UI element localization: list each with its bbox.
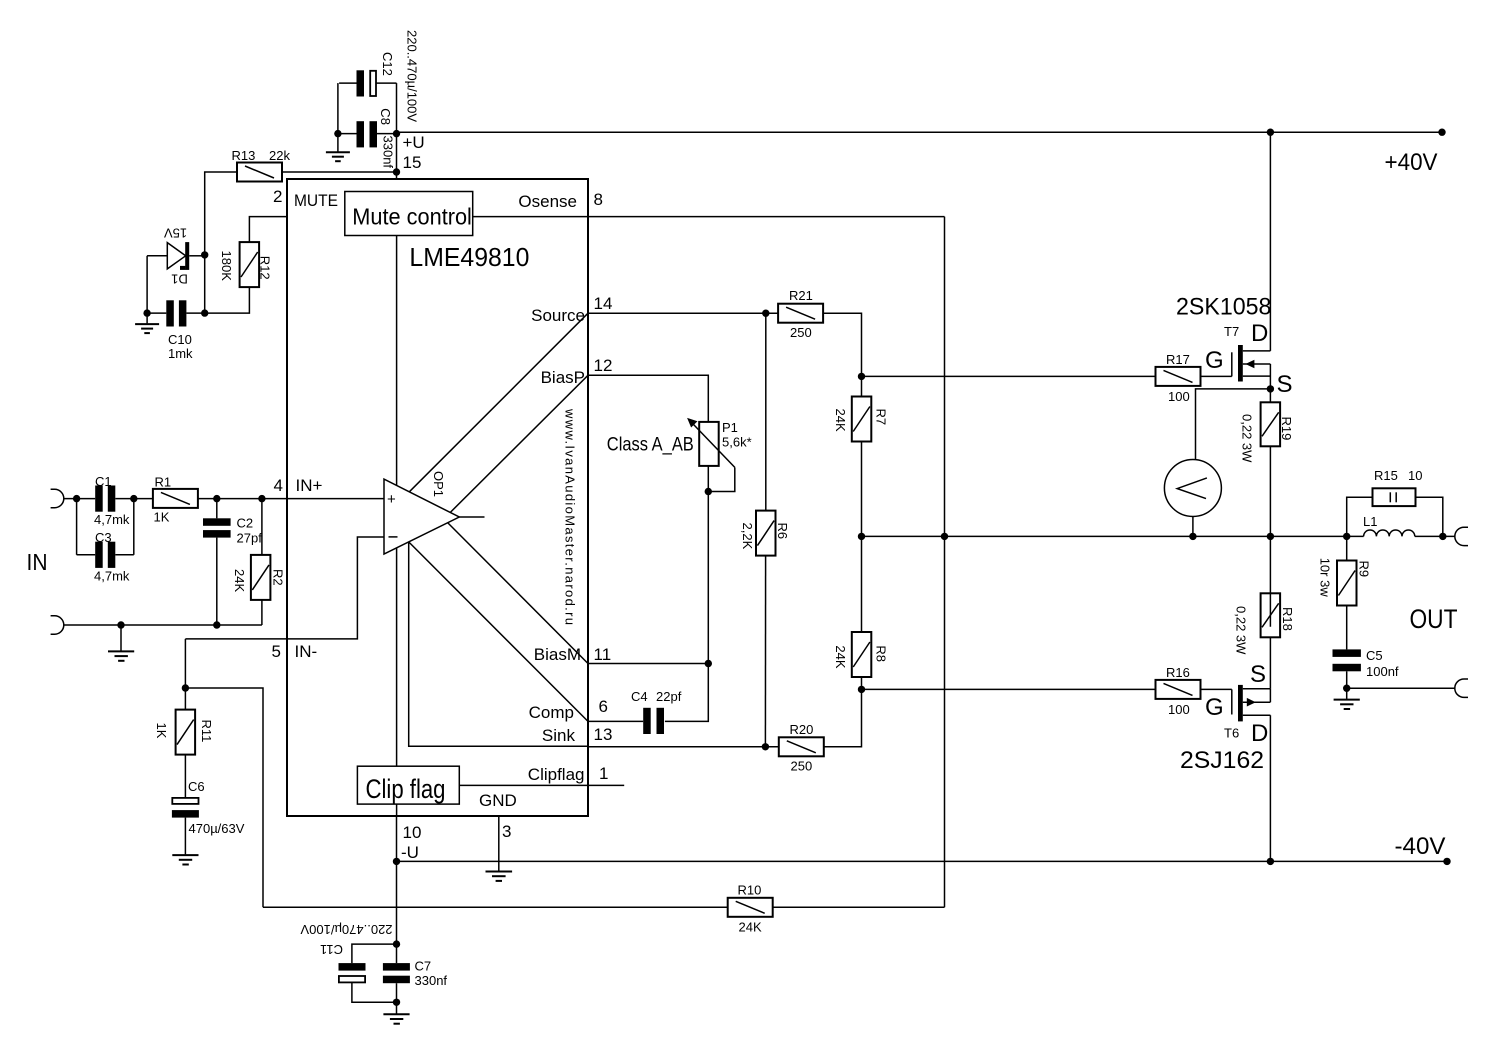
node C5/ground/OUT return junction: [1343, 685, 1350, 692]
wire input top to C1: [64, 498, 95, 500]
svg-text:6: 6: [599, 697, 608, 716]
svg-text:14: 14: [594, 294, 613, 313]
node Osense/output junction: [941, 533, 948, 540]
svg-text:100nf: 100nf: [1366, 664, 1399, 679]
wire BiasP pin12 to P1 top: [588, 375, 708, 422]
transistor T6 2SJ162: [1180, 661, 1270, 861]
node -40V at T6 drain: [1267, 858, 1274, 865]
node Source/R6 junction: [762, 310, 769, 317]
svg-text:C6: C6: [188, 779, 205, 794]
wire R16 right to T6 gate: [1201, 688, 1232, 690]
svg-text:T7: T7: [1224, 324, 1239, 339]
svg-text:C10: C10: [168, 332, 192, 347]
wire R7top junction to R17: [862, 375, 1156, 377]
wire R12 top to pin2 MUTE: [249, 217, 287, 243]
capacitor C10 1mk: [166, 300, 193, 361]
wire C5 bottom to ground node: [1346, 671, 1348, 688]
svg-text:C11: C11: [320, 942, 343, 957]
node ground tap: [117, 621, 124, 628]
wire IN- outside to feedback node: [184, 639, 186, 710]
node R7 top junction: [858, 373, 865, 380]
wire lower input line: [64, 624, 262, 626]
capacitor C1 4,7mk: [94, 474, 130, 527]
resistor R17 100: [1156, 352, 1201, 404]
wire Clipflag pin1 out: [459, 784, 624, 786]
svg-text:R11: R11: [199, 720, 214, 743]
svg-text:24K: 24K: [739, 920, 762, 935]
wire OP1 output stub: [459, 516, 484, 518]
wire diagonal to BiasM pin11: [448, 523, 588, 664]
resistor R18 0,22 3W: [1234, 593, 1296, 655]
wire R1 right to IC pin4: [198, 498, 384, 500]
svg-text:24K: 24K: [232, 569, 247, 592]
svg-text:C12: C12: [380, 52, 395, 76]
svg-text:Osense: Osense: [518, 192, 577, 211]
wire C10 left: [147, 312, 166, 314]
wire C10 node to R12 bottom: [205, 287, 250, 313]
svg-text:1mk: 1mk: [168, 346, 193, 361]
svg-text:T6: T6: [1224, 726, 1239, 741]
resistor R1 1K: [153, 475, 198, 525]
-40V supply rail: [397, 860, 1448, 862]
wire R18 bottom to T6 source: [1269, 637, 1271, 689]
node C10 right junction: [201, 309, 208, 316]
node T7 source junction: [1267, 385, 1274, 392]
node -U rail junction: [393, 858, 400, 865]
resistor R12 180K: [219, 242, 273, 287]
wire diagonal to BiasP pin12: [450, 375, 588, 512]
svg-text:R6: R6: [775, 523, 790, 540]
resistor R11 1K: [154, 710, 214, 755]
node R19/R18 output junction: [1267, 533, 1274, 540]
svg-text:Class A_AB: Class A_AB: [607, 435, 694, 456]
svg-text:MUTE: MUTE: [294, 191, 338, 210]
svg-text:5: 5: [272, 642, 281, 661]
svg-text:R8: R8: [873, 645, 888, 662]
resistor R15 10: [1373, 468, 1423, 506]
wire Sink pin13 to R20: [588, 746, 779, 748]
svg-text:10: 10: [403, 823, 422, 842]
node C7/C11 top junction: [393, 940, 400, 947]
ground (output): [1334, 688, 1360, 709]
wire R11 bottom to C6: [184, 755, 186, 798]
wire mute vertical (pin10 path): [396, 236, 398, 817]
wire P1 bottom down to C4 branch: [665, 466, 708, 722]
svg-text:0,22 3W: 0,22 3W: [1240, 414, 1255, 463]
svg-text:+U: +U: [403, 133, 425, 152]
svg-text:R10: R10: [738, 883, 762, 898]
svg-text:GND: GND: [479, 791, 517, 810]
svg-text:100: 100: [1168, 702, 1190, 717]
wire C11 branch top: [352, 944, 397, 963]
wire L1 right to OUT connector: [1415, 535, 1455, 537]
svg-text:-40V: -40V: [1395, 833, 1446, 860]
wire BiasM pin11: [588, 663, 708, 665]
transistor T7 2SK1058: [1176, 132, 1293, 402]
node meter/output junction: [1189, 533, 1196, 540]
svg-text:250: 250: [790, 325, 812, 340]
svg-text:IN+: IN+: [296, 476, 323, 495]
wire C8 right to +U junction: [377, 133, 397, 135]
wire D1 anode down to C10: [146, 256, 148, 313]
ground (C10): [135, 313, 159, 333]
svg-text:R9: R9: [1357, 561, 1372, 578]
svg-text:P1: P1: [722, 420, 738, 435]
node pin15/R13 junction: [393, 168, 400, 175]
svg-text:27pf: 27pf: [237, 531, 263, 546]
resistor R2 24K: [232, 555, 286, 600]
node -40V rail end: [1443, 858, 1450, 865]
svg-text:Sink: Sink: [542, 726, 576, 745]
svg-text:2,2K: 2,2K: [740, 523, 755, 550]
svg-text:1K: 1K: [154, 510, 170, 525]
node R2 top: [258, 495, 265, 502]
svg-text:11: 11: [594, 645, 612, 664]
svg-text:S: S: [1250, 661, 1266, 688]
inductor L1: [1363, 514, 1415, 536]
svg-text:4,7mk: 4,7mk: [94, 512, 130, 527]
svg-text:OP1: OP1: [431, 471, 446, 497]
wire R9 top stem: [1346, 536, 1348, 560]
svg-text:R2: R2: [271, 569, 286, 586]
svg-text:D: D: [1251, 320, 1268, 347]
resistor R8 24K: [833, 632, 888, 677]
wire C11 branch bottom: [352, 983, 397, 1003]
resistor R21 250: [778, 288, 823, 340]
resistor R10 24K: [728, 883, 773, 935]
wire C1 right to R1: [115, 498, 153, 500]
svg-text:15: 15: [403, 153, 422, 172]
node C8-left junction: [334, 130, 341, 137]
wire R13 left down to D1 node: [205, 172, 237, 313]
svg-text:R7: R7: [873, 409, 888, 426]
wire C2 top stem: [216, 499, 218, 519]
wire feedback branch right: [185, 688, 263, 907]
svg-text:220..470µ/100V: 220..470µ/100V: [300, 922, 392, 937]
svg-text:24K: 24K: [833, 409, 848, 432]
svg-text:Clip flag: Clip flag: [366, 774, 446, 804]
wire T7 source to meter branch: [1196, 389, 1271, 460]
+40V supply rail: [397, 131, 1443, 133]
wire D1 anode left: [147, 255, 167, 257]
svg-text:0,22 3W: 0,22 3W: [1234, 606, 1249, 655]
svg-text:330nf: 330nf: [415, 973, 448, 988]
capacitor C4 22pf: [631, 689, 682, 734]
svg-text:G: G: [1205, 694, 1224, 721]
svg-text:180K: 180K: [219, 251, 234, 282]
wire R2 bottom stem to lower input wire: [261, 600, 263, 625]
wire R2 top stem: [261, 499, 263, 555]
svg-text:C5: C5: [1366, 648, 1383, 663]
wire pin3 ground stem: [498, 816, 500, 871]
wire diagonal to Source pin14: [409, 313, 588, 492]
wire C3 parallel branch right: [115, 554, 134, 556]
wire C2 bottom stem: [216, 538, 218, 625]
wire C6 bottom to ground: [184, 818, 186, 855]
op-amp OP1: [384, 471, 459, 554]
OUT connector top: [1455, 527, 1468, 545]
resistor R7 24K: [833, 397, 888, 442]
node C10 left junction: [143, 309, 150, 316]
svg-text:C2: C2: [237, 516, 254, 531]
wire Osense line pin8: [473, 216, 945, 218]
svg-text:L1: L1: [1363, 514, 1377, 529]
wire R8 bottom junction to R16: [861, 677, 863, 689]
svg-text:10: 10: [1408, 468, 1422, 483]
svg-text:D: D: [1251, 720, 1268, 747]
wire R6 column: [765, 313, 767, 510]
svg-text:+: +: [387, 491, 396, 508]
svg-text:S: S: [1277, 371, 1293, 398]
mute control box: [345, 192, 473, 236]
resistor R20 250: [779, 722, 824, 774]
svg-text:15V: 15V: [164, 226, 187, 241]
svg-text:3: 3: [502, 822, 511, 841]
svg-text:R20: R20: [790, 722, 814, 737]
node BiasM junction: [705, 660, 712, 667]
node P1 wiper junction: [705, 488, 712, 495]
capacitor C5 100nf: [1333, 648, 1399, 679]
wire Osense vertical column: [944, 217, 946, 908]
wire vertical C12-right down to +U rail: [396, 83, 398, 134]
wire C3 parallel branch left: [76, 499, 78, 555]
svg-text:10r 3w: 10r 3w: [1318, 558, 1333, 598]
svg-text:+40V: +40V: [1385, 149, 1438, 176]
resistor R9 10r 3w: [1318, 558, 1372, 606]
svg-text:Mute control: Mute control: [352, 204, 472, 230]
svg-text:470µ/63V: 470µ/63V: [189, 821, 245, 836]
capacitor C2 27pf: [203, 516, 262, 546]
meter V (bias voltage): [1164, 460, 1221, 517]
svg-text:4: 4: [274, 476, 283, 495]
wire R17 right to T7 gate: [1201, 375, 1232, 377]
ground (input): [108, 625, 134, 661]
wire R21 right to R7 top: [823, 313, 861, 396]
wire R15 loop left leg: [1347, 497, 1373, 536]
node C1-right/C3 branch: [130, 495, 137, 502]
node Sink/R6 bottom junction: [762, 743, 769, 750]
svg-text:R15: R15: [1374, 468, 1398, 483]
svg-text:R16: R16: [1166, 665, 1190, 680]
svg-text:C1: C1: [95, 474, 112, 489]
svg-text:OUT: OUT: [1410, 604, 1458, 634]
node C2 top: [213, 495, 220, 502]
svg-text:R17: R17: [1166, 352, 1190, 367]
node output/Zobel junction: [1343, 533, 1350, 540]
ground (pin3): [486, 872, 513, 881]
node +40V rail end: [1438, 129, 1445, 136]
resistor R13 22k: [232, 148, 291, 182]
wire diagonal to Comp pin6: [409, 542, 588, 722]
wire Source pin14 to R21: [588, 312, 778, 314]
svg-text:LME49810: LME49810: [409, 242, 529, 272]
node +U junction: [393, 130, 400, 137]
wire R13 right to pin15: [282, 171, 397, 173]
capacitor C12 (electrolytic 220..470u/100V): [357, 52, 396, 97]
resistor R16 100: [1156, 665, 1201, 717]
svg-text:Comp: Comp: [529, 703, 574, 722]
wire C8 left: [338, 133, 357, 135]
svg-text:Source: Source: [531, 306, 585, 325]
svg-text:R19: R19: [1279, 417, 1294, 441]
capacitor C6 470u/63V (electrolytic): [172, 798, 245, 836]
wire OUT return line: [1347, 687, 1455, 689]
wire R10 feedback line: [263, 906, 728, 908]
svg-text:1K: 1K: [154, 723, 169, 739]
svg-text:250: 250: [791, 759, 813, 774]
svg-text:IN: IN: [27, 549, 48, 575]
svg-text:5,6k*: 5,6k*: [722, 435, 752, 450]
input connector bottom: [51, 616, 64, 634]
clip flag box: [357, 766, 459, 804]
wire C12 left to ground branch: [339, 82, 356, 84]
svg-text:-U: -U: [401, 843, 419, 862]
svg-text:2SK1058: 2SK1058: [1176, 294, 1271, 321]
wire D1 cathode to junction: [189, 255, 205, 257]
svg-text:2: 2: [273, 187, 282, 206]
svg-text:24K: 24K: [833, 645, 848, 668]
capacitor C3 4,7mk: [94, 530, 130, 584]
resistor R6 2,2K: [740, 511, 790, 556]
svg-text:2SJ162: 2SJ162: [1180, 747, 1264, 774]
input connector top: [51, 489, 64, 507]
node R7/R8 output junction: [858, 533, 865, 540]
svg-text:22pf: 22pf: [656, 689, 682, 704]
svg-text:220..470µ/100V: 220..470µ/100V: [405, 30, 420, 122]
svg-text:R1: R1: [155, 475, 172, 490]
node C2 bottom: [213, 621, 220, 628]
svg-text:C8: C8: [378, 108, 393, 125]
node +40V at T7 drain: [1267, 129, 1274, 136]
IC LME49810 body: [287, 179, 588, 816]
svg-text:D1: D1: [171, 272, 188, 287]
resistor R19 0,22 3W: [1240, 402, 1295, 463]
wire C12 right to +U column: [376, 82, 397, 84]
node C7 bottom/ground junction: [393, 999, 400, 1006]
wire R20 right up to R8 bottom junction: [824, 689, 862, 746]
wire R9 bottom to C5: [1346, 606, 1348, 650]
wire C10 right: [186, 312, 204, 314]
svg-text:www.IvanAudioMaster.narod.ru: www.IvanAudioMaster.narod.ru: [563, 408, 578, 625]
node D1/R13 junction: [201, 251, 208, 258]
ground (C7/C11): [383, 1002, 409, 1023]
zener diode D1 15V: [164, 226, 190, 287]
svg-text:R13: R13: [232, 148, 256, 163]
svg-text:BiasM: BiasM: [534, 645, 581, 664]
svg-text:1: 1: [599, 764, 608, 783]
wire pin10 below IC to -40V rail and C7: [396, 816, 398, 944]
ground (C12/C8): [326, 134, 350, 162]
capacitor C8 330nf: [357, 108, 396, 168]
output line horizontal: [862, 535, 1364, 537]
svg-text:G: G: [1205, 347, 1224, 374]
wire R19 bottom to output line: [1269, 446, 1271, 626]
svg-text:8: 8: [594, 190, 603, 209]
wire OP1 inverting input to IN-: [185, 537, 384, 639]
svg-text:12: 12: [594, 356, 613, 375]
wire R15 loop right leg: [1416, 497, 1443, 536]
node input/C3 branch: [73, 495, 80, 502]
svg-text:C4: C4: [631, 689, 648, 704]
ground (C6): [172, 855, 198, 864]
svg-text:C7: C7: [415, 959, 432, 974]
wire C7 stems: [396, 944, 398, 963]
node R8 bottom junction: [858, 686, 865, 693]
wire Comp pin6 to C4: [588, 720, 643, 722]
wire Sink path vertical+horizontal pin13: [409, 542, 588, 746]
svg-text:C3: C3: [95, 530, 112, 545]
svg-text:R21: R21: [789, 288, 813, 303]
OUT connector bottom: [1455, 679, 1468, 697]
svg-text:330nf: 330nf: [381, 136, 396, 169]
svg-text:4,7mk: 4,7mk: [94, 569, 130, 584]
node R11 top / feedback: [182, 684, 189, 691]
svg-text:R18: R18: [1280, 607, 1295, 631]
svg-text:R12: R12: [258, 256, 273, 280]
wire meter bottom to output line: [1192, 517, 1194, 537]
node L1/R15 right junction: [1439, 533, 1446, 540]
potentiometer P1 5,6k*: [687, 418, 752, 492]
capacitor C11 electrolytic (220..470u/100V): [300, 922, 392, 983]
svg-text:IN-: IN-: [295, 642, 318, 661]
wire R7 bottom to output node: [861, 442, 863, 633]
capacitor C7 330nf: [383, 959, 448, 989]
svg-text:13: 13: [594, 725, 613, 744]
wire vertical C12-left down to C8-left: [337, 83, 339, 134]
svg-text:Clipflag: Clipflag: [528, 765, 585, 784]
svg-text:100: 100: [1168, 389, 1190, 404]
wire pin15 vertical into IC: [396, 134, 398, 179]
svg-text:22k: 22k: [269, 148, 290, 163]
